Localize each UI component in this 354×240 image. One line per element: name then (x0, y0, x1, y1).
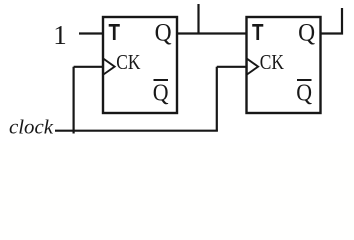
svg-text:Q: Q (298, 17, 315, 46)
svg-text:Q: Q (153, 79, 169, 106)
svg-text:Q: Q (296, 79, 312, 106)
svg-text:CK: CK (116, 51, 140, 74)
svg-text:T: T (252, 19, 264, 45)
svg-text:1: 1 (53, 20, 67, 50)
svg-text:T: T (109, 19, 121, 45)
svg-text:clock: clock (9, 117, 54, 139)
svg-text:Q: Q (155, 17, 172, 46)
svg-text:CK: CK (260, 51, 284, 74)
